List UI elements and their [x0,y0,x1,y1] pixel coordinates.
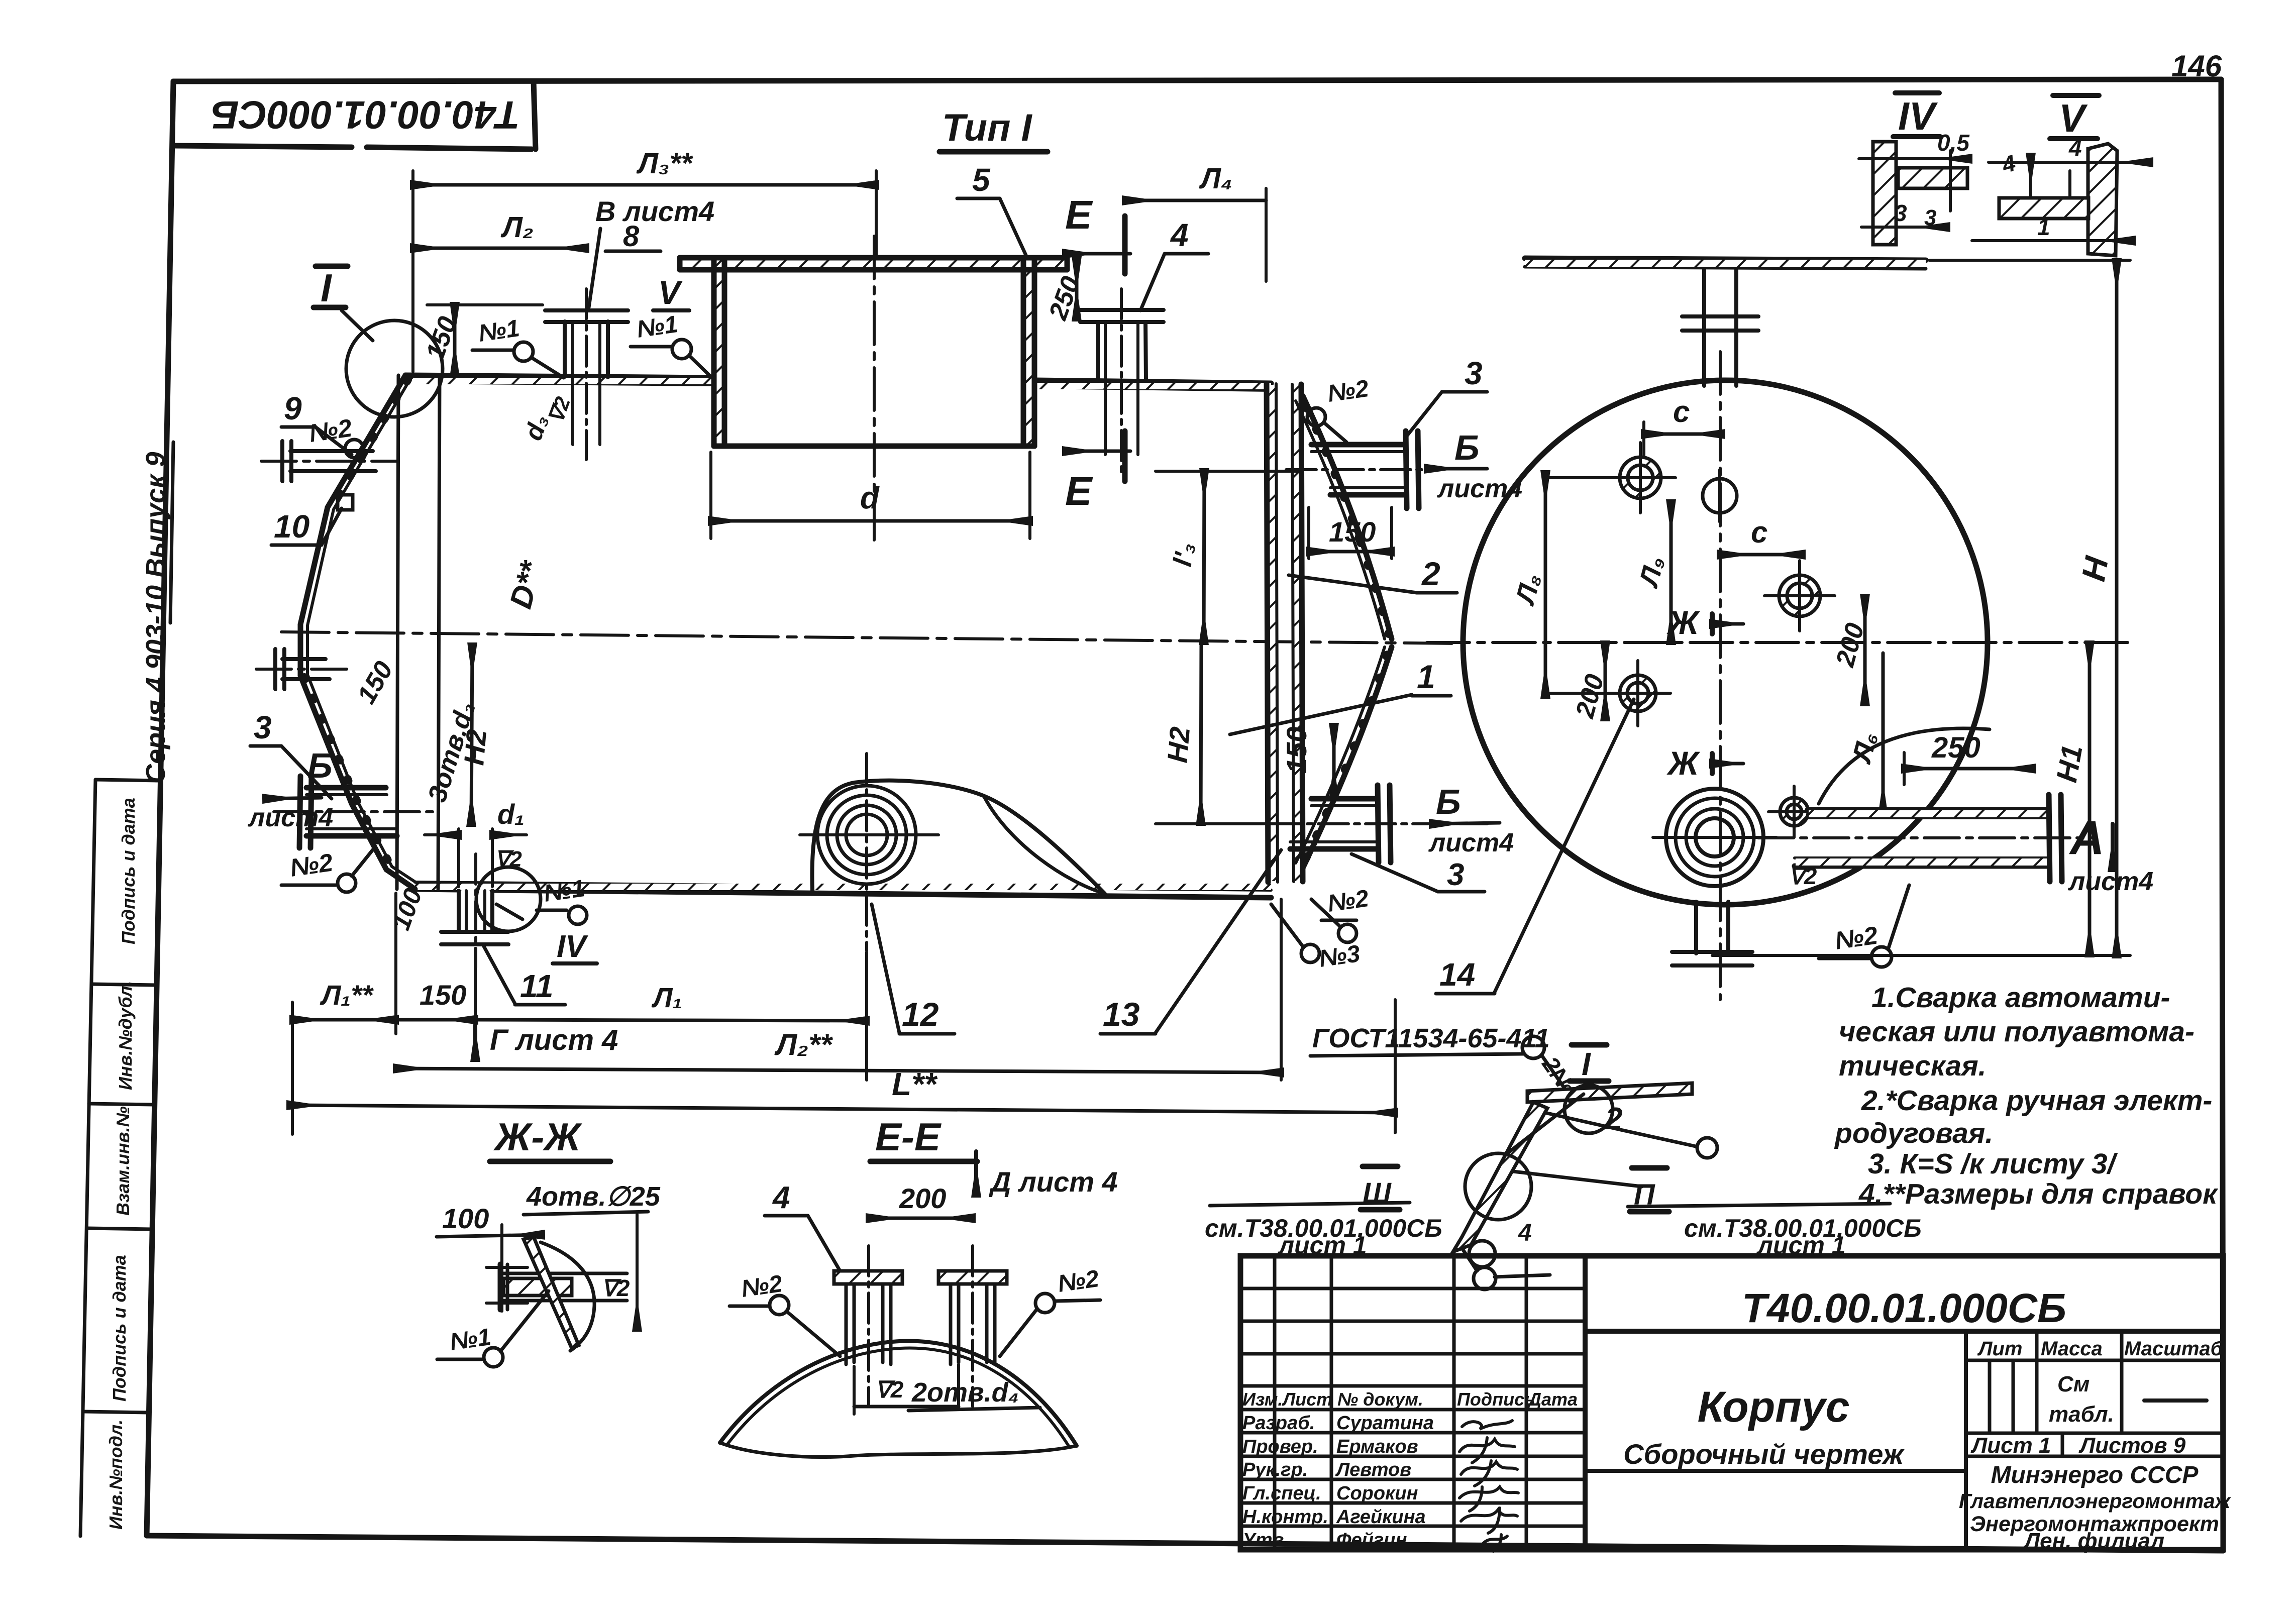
nozzle 9 upper left [282,441,376,481]
hole h4 lower left [1620,675,1656,711]
weld leader 2N3 [1541,1055,1568,1093]
svg-text:2: 2 [1605,1102,1622,1136]
svg-text:лист4: лист4 [247,803,333,832]
dim L9 rotated [1669,502,1673,642]
Zh-Zh flange [498,1264,503,1310]
left margin stamp boxes [80,780,159,1536]
svg-text:родуговая.: родуговая. [1834,1117,1993,1149]
svg-text:Л₃**: Л₃** [636,147,693,180]
Zh-Zh stub pipe [503,1278,572,1296]
svg-text:лист4: лист4 [1428,828,1514,857]
svg-text:Лит: Лит [1977,1338,2022,1360]
svg-text:Н2: Н2 [1161,725,1196,764]
Zh-Zh shell arc [541,1242,594,1351]
svg-text:Подпись: Подпись [1457,1389,1535,1410]
svg-text:Рук.гр.: Рук.гр. [1242,1459,1308,1480]
svg-text:4отв.∅25: 4отв.∅25 [526,1181,661,1212]
scale dash [2144,1398,2207,1403]
weld hatch band bottom shell [415,884,1271,890]
svg-text:Е: Е [1065,192,1093,237]
detail IV horizontal bar [1898,168,1967,188]
weld hatch band right head left [1268,385,1277,881]
section mark B right upper [1427,467,1487,471]
svg-text:Б: Б [307,746,333,785]
svg-text:Подпись и дата: Подпись и дата [118,798,139,944]
svg-text:Фейгин: Фейгин [1336,1530,1407,1551]
signature rows [1242,1413,1434,1551]
svg-text:с: с [1673,395,1690,428]
svg-text:№2: №2 [740,1270,784,1303]
dim 150 right upper [1309,550,1392,554]
hole h5 small lower right [1780,798,1808,826]
nozzle 8 top [545,310,628,445]
svg-text:Разраб.: Разраб. [1242,1413,1315,1434]
svg-text:Д лист 4: Д лист 4 [989,1166,1118,1198]
organization cell [1959,1462,2231,1553]
Zh-Zh shell diagonal [524,1237,579,1348]
bottom nozzle of end view [1672,902,1752,965]
svg-text:Ж: Ж [1666,744,1701,782]
weld leaders [1545,1113,1623,1130]
svg-text:4: 4 [2068,135,2082,161]
svg-text:0,5: 0,5 [1937,130,1970,156]
dim 200 right rotated [1863,597,1867,703]
svg-text:V: V [658,274,683,311]
svg-text:ГОСТ11534-65-411: ГОСТ11534-65-411 [1312,1023,1550,1053]
notes text block [1834,982,2219,1210]
E-E right stub [951,1284,995,1364]
svg-text:146: 146 [2171,49,2222,83]
svg-text:Ж-Ж: Ж-Ж [493,1115,582,1159]
svg-text:3: 3 [1447,857,1464,892]
dim line L1 row [292,1018,396,1022]
signature scribbles [1459,1421,1518,1551]
svg-text:№2: №2 [1326,885,1371,917]
svg-text:Н1: Н1 [2050,742,2089,785]
svg-text:d₁: d₁ [497,798,525,830]
dim L6 rotated [1882,653,1885,813]
bolt item 10 [338,495,353,510]
mark G list 4 [473,1025,477,1059]
E-E head dome [720,1341,1077,1446]
top nozzle of end view [1682,270,1758,386]
svg-text:I: I [321,266,332,310]
svg-text:10: 10 [274,508,309,545]
bottom extension line of H [1712,954,2130,957]
title block outer frame [1240,1256,2223,1550]
detail V horizontal bar [1999,198,2089,219]
weld hatch band right head right [1293,385,1302,881]
hole h2 plain top [1703,479,1737,513]
svg-text:№2: №2 [1056,1265,1101,1298]
svg-text:с: с [1751,515,1767,549]
svg-text:Ермаков: Ермаков [1336,1436,1418,1457]
svg-text:5: 5 [972,162,991,198]
svg-text:3: 3 [1894,200,1907,226]
svg-text:IV: IV [557,929,588,964]
shell top line right of manhole [1034,380,1271,390]
weld detail circle a [1564,1085,1613,1133]
lit massa masshtab [1977,1338,2224,1360]
saddle support 12 outline [812,781,1105,894]
svg-text:№1: №1 [635,311,679,343]
svg-text:1: 1 [1417,658,1435,695]
shell bottom line [415,882,1271,898]
dim c middle [1720,553,1803,557]
detail V dims [1989,161,2150,164]
svg-text:Инв.№подл.: Инв.№подл. [106,1420,126,1530]
end view vertical centerline [1719,352,1722,1000]
weld hatch band manhole flange [680,258,1067,269]
svg-text:200: 200 [899,1182,946,1214]
svg-text:Листов 9: Листов 9 [2078,1433,2186,1458]
svg-text:11: 11 [520,968,553,1004]
svg-text:Н2: Н2 [458,728,492,767]
svg-text:Л₂: Л₂ [500,211,534,244]
drain nozzle rings on saddle [817,786,916,884]
dim H2 left rotated [471,645,472,824]
svg-text:Минэнерго СССР: Минэнерго СССР [1991,1462,2199,1488]
side pipe A [1795,795,2062,882]
dim L2 line [413,247,586,250]
pipe leader curve [1819,728,1990,804]
svg-text:№1: №1 [477,315,521,347]
svg-text:Ж: Ж [1666,604,1701,641]
svg-text:Левтов: Левтов [1335,1459,1411,1480]
right cone lower slant [1303,647,1392,868]
svg-text:150: 150 [1281,727,1312,774]
dim d1 [457,829,460,887]
dim 250 at manhole [1075,259,1079,318]
svg-text:I: I [1582,1046,1591,1082]
svg-text:Е: Е [1065,469,1093,513]
svg-text:№ докум.: № докум. [1337,1389,1423,1410]
right head verticals [1267,384,1268,882]
svg-text:Изм.Лист: Изм.Лист [1242,1389,1332,1410]
svg-text:лист4: лист4 [2067,867,2153,896]
dim L8 rotated [1544,473,1547,696]
shell top line left of manhole [405,375,714,385]
svg-text:L**: L** [892,1066,938,1102]
middle left nozzle [275,649,330,689]
title block left table horizontals [1240,1288,1585,1526]
svg-text:Лен. филиал: Лен. филиал [2023,1529,2164,1553]
svg-text:3. К=S /к листу 3/: 3. К=S /к листу 3/ [1868,1148,2118,1180]
svg-text:Главтеплоэнергомонтаж: Главтеплоэнергомонтаж [1959,1489,2231,1513]
svg-text:Инв.№дубл.: Инв.№дубл. [115,981,136,1090]
top mounting plate [1525,258,1926,260]
vessel axis centerline [281,632,1459,643]
svg-text:Дата: Дата [1527,1389,1578,1410]
weld detail circle c [1469,1241,1495,1267]
svg-text:250: 250 [1931,731,1980,764]
svg-text:Утв.: Утв. [1242,1530,1289,1551]
hatch ticks on right cone upper [1306,407,1389,634]
hatch ticks on right cone lower [1306,651,1389,858]
svg-text:В лист4: В лист4 [595,195,714,227]
svg-text:8: 8 [623,220,640,253]
svg-text:Л₁: Л₁ [651,982,682,1013]
svg-text:Сборочный чертеж: Сборочный чертеж [1623,1438,1905,1470]
title header row labels [1242,1389,1578,1410]
hole h3 middle right [1779,575,1820,616]
svg-text:А: А [2069,811,2105,865]
svg-text:2.*Сварка ручная элект-: 2.*Сварка ручная элект- [1861,1085,2212,1117]
dim H vertical [2115,261,2119,955]
dim 200 left rotated [1604,643,1607,718]
svg-text:l'₃: l'₃ [1168,541,1201,569]
weld sketch diagonal plate [1453,1102,1547,1252]
svg-text:Масштаб: Масштаб [2124,1338,2224,1360]
document number box top-left (rotated 180) [175,81,536,149]
svg-text:9: 9 [284,390,302,426]
nozzle 4 right of manhole [1080,310,1164,455]
svg-text:Агейкина: Агейкина [1336,1507,1426,1528]
weld hatch band top shell left [405,378,714,384]
svg-text:4: 4 [1518,1220,1532,1246]
dim 150 right lower rotated [1332,726,1336,796]
bottom left nozzle 11 [441,891,508,944]
svg-text:Масса: Масса [2041,1338,2103,1360]
svg-text:Подпись и дата: Подпись и дата [109,1255,130,1402]
svg-text:№2: №2 [1326,375,1371,407]
left head weld seam verticals [397,375,398,889]
svg-text:№1: №1 [542,875,586,907]
weld hatch band manhole right wall [1023,270,1034,446]
dim H2 right rotated [1201,643,1201,823]
svg-text:∇2: ∇2 [1789,863,1817,889]
svg-text:Б: Б [1436,782,1461,821]
dim 150 vertical at nozzle 8 [453,305,457,374]
title block left table verticals [1275,1256,1526,1550]
E-E dim 2otv d4 [853,1366,856,1414]
weld hatch band manhole left wall [714,270,724,446]
end view shell circle [1463,380,1988,905]
hatch ticks on left head lower slant [304,677,391,866]
svg-text:тическая.: тическая. [1839,1050,1987,1082]
dim H1 vertical [2088,643,2092,954]
hole h1 upper left [1620,457,1661,498]
dim 250 pipe [1904,767,2033,771]
svg-text:V: V [2059,96,2088,140]
lower right nozzle B [1290,785,1391,863]
svg-text:Л₂**: Л₂** [774,1028,833,1061]
upper right nozzle B [1311,431,1419,508]
dim c upper [1644,433,1722,436]
right sub-table [1964,1331,1968,1550]
manhole (Tip I item 5) [680,258,1067,446]
svg-text:См: См [2057,1372,2090,1396]
svg-text:Л₁**: Л₁** [320,979,374,1011]
svg-text:∇2: ∇2 [875,1376,904,1403]
svg-text:Б: Б [1454,428,1480,467]
weld hatch band top shell right [1034,383,1271,389]
svg-text:Е-Е: Е-Е [875,1115,942,1159]
bottom dim extension lines [292,893,1395,1134]
svg-text:100: 100 [442,1203,489,1234]
weld detail circle b [1465,1153,1531,1220]
detail circle I on shell corner [346,320,443,417]
svg-text:IV: IV [1898,94,1938,138]
svg-text:Г лист 4: Г лист 4 [490,1024,618,1056]
svg-text:4: 4 [1170,217,1189,253]
end view horizontal centerline [1427,641,2130,644]
svg-text:3: 3 [1924,205,1936,230]
section mark B right lower [1432,823,1500,824]
svg-text:Н.контр.: Н.контр. [1242,1507,1328,1528]
svg-text:1: 1 [2037,214,2050,240]
svg-text:Т40.00.01.000СБ: Т40.00.01.000СБ [1742,1285,2066,1331]
lower left nozzle B [299,776,397,848]
weld sketch top bar [1527,1083,1692,1102]
dim line L [289,1105,1395,1113]
big manway hole bottom [1666,789,1763,886]
dim d manhole [709,452,712,539]
svg-text:4.**Размеры для справок: 4.**Размеры для справок [1858,1178,2219,1210]
svg-text:Тип I: Тип I [942,106,1032,149]
dim line L2 [396,1068,1281,1072]
svg-text:Суратина: Суратина [1336,1413,1434,1434]
svg-text:3: 3 [254,709,272,745]
svg-text:3: 3 [1465,355,1483,391]
svg-text:Т40.00.01.000СБ: Т40.00.01.000СБ [211,93,520,137]
detail circle IV on nozzle 11 [476,867,541,931]
svg-text:Л₄: Л₄ [1199,162,1232,195]
svg-text:Сорокин: Сорокин [1336,1483,1418,1504]
E-E dim 200 [869,1217,973,1220]
dim L3 line [413,183,876,187]
svg-text:∇2: ∇2 [495,847,522,872]
E-E mark D list4 [974,1151,978,1195]
left head outline [300,375,415,889]
svg-text:Провер.: Провер. [1242,1436,1318,1457]
dim L4 [1125,199,1266,202]
svg-text:Корпус: Корпус [1698,1383,1850,1431]
svg-text:2: 2 [1421,555,1440,592]
E-E left stub [846,1284,891,1364]
svg-text:№2: №2 [288,848,335,882]
hatch ticks on left head upper slant [332,380,408,507]
svg-text:ческая или полуавтома-: ческая или полуавтома- [1839,1016,2195,1048]
svg-text:4: 4 [772,1180,790,1215]
svg-text:№3: №3 [1317,940,1362,973]
svg-text:Лист 1: Лист 1 [1970,1433,2051,1458]
detail IV dims [1859,157,1969,160]
svg-text:∇2: ∇2 [601,1275,630,1301]
detail V vertical plate [2088,144,2117,256]
svg-text:Серия 4.903-10 Выпуск 9: Серия 4.903-10 Выпуск 9 [141,452,171,784]
svg-text:1.Сварка автомати-: 1.Сварка автомати- [1871,982,2170,1014]
detail IV vertical plate [1873,142,1896,245]
svg-text:13: 13 [1103,996,1139,1033]
svg-text:d: d [860,481,880,515]
svg-text:табл.: табл. [2049,1402,2114,1427]
svg-text:2отв.d₄: 2отв.d₄ [911,1377,1019,1408]
svg-text:Гл.спец.: Гл.спец. [1242,1483,1321,1504]
right cone upper slant [1303,396,1392,639]
svg-text:12: 12 [902,996,939,1033]
dim l3' right rotated [1204,471,1204,642]
svg-text:150: 150 [420,979,466,1011]
svg-text:14: 14 [1439,956,1475,993]
svg-text:Взам.инв.№: Взам.инв.№ [113,1106,133,1216]
